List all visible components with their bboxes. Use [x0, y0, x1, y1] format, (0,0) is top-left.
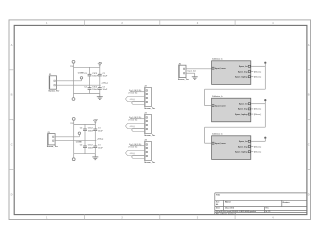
svg-text:+5V: +5V: [98, 62, 103, 65]
svg-text:Collector_b: Collector_b: [212, 58, 223, 61]
svg-text:(T.Gnd 1k): (T.Gnd 1k): [129, 146, 138, 148]
svg-text:Input_low: Input_low: [188, 70, 197, 73]
svg-text:Spare_InpImp: Spare_InpImp: [235, 77, 248, 79]
svg-text:Screw_Ter: Screw_Ter: [144, 162, 155, 164]
svg-text:B: B: [11, 93, 13, 97]
svg-text:Spare_Int: Spare_Int: [239, 103, 248, 106]
svg-text:Collector_b: Collector_b: [212, 133, 223, 136]
svg-text:Spare_InpImp: Spare_InpImp: [235, 152, 248, 154]
svg-text:[Elsew.]: [Elsew.]: [254, 109, 261, 111]
svg-text:100nF: 100nF: [92, 89, 99, 91]
svg-text:10uF: 10uF: [98, 130, 103, 132]
svg-text:Screw_Ter: Screw_Ter: [144, 108, 155, 110]
svg-text:C: C: [308, 143, 310, 147]
svg-text:Input_lower: Input_lower: [215, 67, 226, 70]
svg-text:Name: Name: [225, 202, 232, 204]
svg-text:Input_lower: Input_lower: [215, 142, 226, 145]
svg-text:Grutex: Grutex: [283, 201, 291, 204]
svg-text:A4: A4: [216, 203, 218, 206]
svg-text:Screw_Ter: Screw_Ter: [48, 91, 59, 93]
svg-text:100nF: 100nF: [88, 147, 95, 149]
svg-text:+5V(+): +5V(+): [130, 153, 136, 155]
svg-text:A: A: [11, 43, 13, 47]
svg-text:Spare_Int: Spare_Int: [239, 65, 248, 68]
svg-text:Spare_Int: Spare_Int: [239, 140, 248, 143]
svg-text:COM8: COM8: [78, 72, 85, 74]
svg-text:100nF: 100nF: [88, 130, 95, 132]
svg-text:D: D: [308, 193, 310, 197]
svg-text:Screw_Ter: Screw_Ter: [178, 79, 189, 81]
svg-text:C: C: [11, 143, 13, 147]
svg-text:Screw_Ter: Screw_Ter: [47, 146, 58, 148]
svg-text:+5V: +5V: [93, 119, 98, 122]
svg-text:Spare_Imp: Spare_Imp: [238, 109, 249, 111]
svg-text:Spare_Imp: Spare_Imp: [238, 146, 249, 148]
svg-text:Input_lower: Input_lower: [215, 104, 226, 107]
svg-text:Date:: Date:: [216, 207, 221, 210]
svg-text:(T.Gnd 1k): (T.Gnd 1k): [129, 92, 138, 94]
svg-text:+5V(+): +5V(+): [97, 139, 104, 141]
svg-text:(T.Gnd 1k): (T.Gnd 1k): [129, 119, 138, 121]
svg-text:[Elsew.]: [Elsew.]: [254, 146, 261, 148]
svg-text:10uF: 10uF: [98, 147, 103, 149]
svg-text:+5V(+): +5V(+): [101, 83, 108, 85]
svg-text:COM8: COM8: [76, 142, 83, 144]
svg-text:24 jun 2014: 24 jun 2014: [225, 207, 234, 210]
svg-text:Collector_b: Collector_b: [212, 95, 223, 98]
svg-text:D: D: [11, 193, 13, 197]
svg-text:10uF: 10uF: [103, 89, 108, 91]
svg-text:+5V(+): +5V(+): [130, 126, 136, 128]
svg-text:Spare_Imp: Spare_Imp: [238, 71, 249, 73]
svg-text:[Elsew.]: [Elsew.]: [254, 71, 261, 73]
svg-text:File: collector_board.sch: File: collector_board.sch: [216, 212, 236, 215]
svg-text:A: A: [308, 43, 310, 47]
svg-text:Screw_Ter: Screw_Ter: [144, 135, 155, 137]
svg-text:Id: 1/1: Id: 1/1: [266, 211, 271, 213]
svg-text:[Elsew.]: [Elsew.]: [254, 77, 261, 79]
svg-text:+5V(+): +5V(+): [130, 99, 136, 101]
svg-text:Rev:: Rev:: [266, 208, 270, 210]
svg-text:10uF: 10uF: [103, 76, 108, 78]
svg-text:[Elsew.]: [Elsew.]: [254, 114, 261, 116]
svg-text:100nF: 100nF: [92, 76, 99, 78]
svg-text:Spare_InpImp: Spare_InpImp: [235, 114, 248, 116]
svg-text:[Elsew.]: [Elsew.]: [254, 152, 261, 154]
svg-text:B: B: [308, 93, 310, 97]
